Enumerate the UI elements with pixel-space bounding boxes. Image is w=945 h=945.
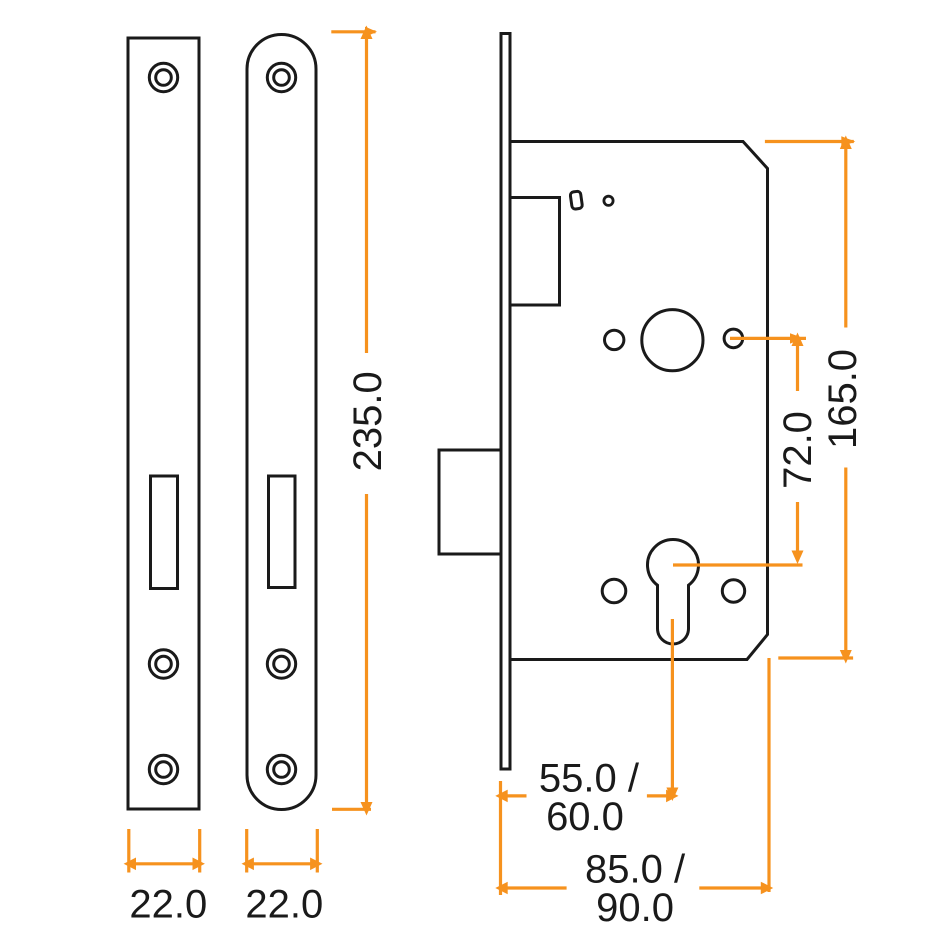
svg-text:90.0: 90.0 (596, 886, 674, 930)
svg-text:22.0: 22.0 (129, 882, 207, 926)
svg-text:165.0: 165.0 (821, 349, 865, 449)
svg-text:60.0: 60.0 (546, 795, 624, 839)
svg-text:235.0: 235.0 (346, 371, 390, 471)
svg-text:72.0: 72.0 (776, 411, 820, 489)
svg-text:85.0 /: 85.0 / (585, 848, 686, 892)
svg-text:22.0: 22.0 (245, 882, 323, 926)
